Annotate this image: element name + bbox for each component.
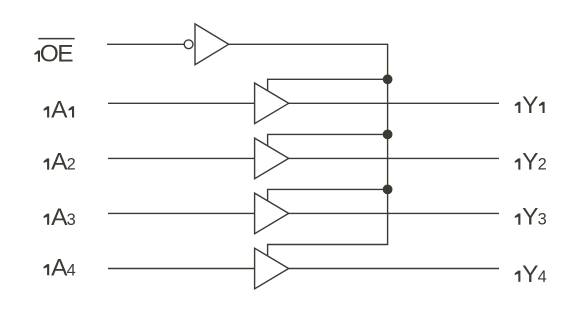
svg-text:Y: Y: [522, 92, 538, 119]
wire enable branch 3: [268, 189, 388, 200]
wire 1Y3 output: [289, 212, 499, 214]
label 1A3: [44, 204, 76, 231]
inverter U1 (enable inverter, input bubble): [184, 24, 228, 65]
wire 1A2 input: [108, 157, 255, 159]
junction dot node enable-row2: [383, 130, 393, 140]
label 1Y3: [515, 204, 547, 231]
svg-text:A3: A3: [51, 204, 76, 231]
buffer 2 (1A2 to 1Y2): [255, 138, 289, 179]
wire 1A1 input: [108, 102, 255, 104]
wire 1OE input: [107, 43, 184, 45]
junction dot node enable-row1: [383, 74, 393, 84]
wire 1A3 input: [108, 212, 255, 214]
buffer 3 (1A3 to 1Y3): [255, 193, 289, 234]
label 1A2: [44, 149, 76, 176]
buffer 4 (1A4 to 1Y4): [255, 248, 289, 289]
label 1Y4: [515, 261, 547, 288]
svg-text:A2: A2: [51, 149, 76, 176]
wire enable branch 2: [268, 134, 388, 145]
svg-text:A: A: [51, 97, 68, 124]
label 1OE with overline: [34, 39, 74, 68]
label 1Y1: [515, 92, 545, 119]
label 1A4: [44, 254, 76, 281]
svg-text:Y2: Y2: [522, 149, 547, 176]
label 1A1: [44, 97, 74, 124]
buffer 1 (1A1 to 1Y1): [255, 83, 289, 124]
junction dot node enable-row3: [383, 185, 393, 195]
wire 1Y4 output: [289, 268, 499, 270]
wire 1Y1 output: [289, 102, 499, 104]
label 1Y2: [515, 149, 547, 176]
svg-text:Y3: Y3: [522, 204, 547, 231]
wire enable branch 1: [268, 79, 388, 90]
svg-text:Y4: Y4: [522, 261, 547, 288]
wire 1Y2 output: [289, 157, 499, 159]
svg-text:A4: A4: [51, 254, 76, 281]
wire 1A4 input: [108, 268, 255, 270]
wire enable bus (inverter output, vertical bus, branch to buffer 4): [229, 44, 388, 256]
svg-text:OE: OE: [40, 41, 74, 68]
